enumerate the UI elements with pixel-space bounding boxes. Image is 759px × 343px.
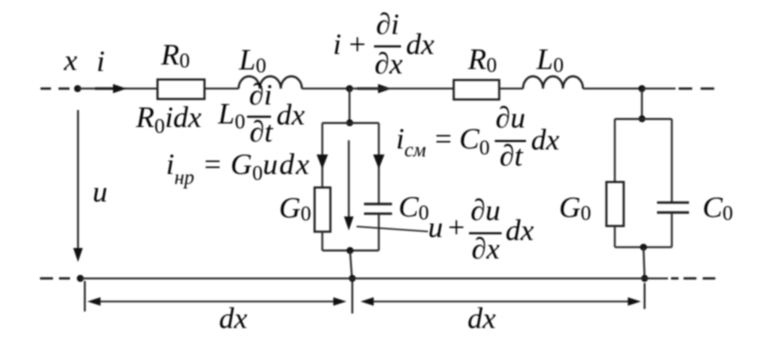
- svg-text:dx: dx: [219, 302, 248, 335]
- wire: right shunt right branch lower: [671, 213, 673, 248]
- wire: middle shunt top horizontal: [322, 122, 379, 124]
- node: right shunt top: [639, 115, 646, 122]
- capacitor C0 (middle shunt): [364, 204, 392, 214]
- capacitor C0 (right shunt): [657, 203, 689, 213]
- arrow: current i+di/dx dx direction: [357, 84, 392, 93]
- value label i_cm = C0 du/dt dx: [396, 101, 560, 172]
- value label L0 di/dt dx: [217, 78, 306, 148]
- svg-text:i: i: [333, 28, 341, 61]
- wire: bottom rail left dashed lead-in: [40, 277, 70, 279]
- svg-text:i: i: [97, 45, 105, 78]
- svg-text:dx: dx: [531, 124, 560, 157]
- node: right shunt bottom: [640, 244, 647, 251]
- dimension tick (middle): [351, 281, 353, 314]
- svg-text:∂t: ∂t: [250, 115, 274, 148]
- resistor R0 (section 2): [454, 80, 500, 100]
- leader line from middle voltage arrow to its label: [357, 227, 429, 232]
- conductance G0 (right shunt): [606, 182, 623, 226]
- value label i + di/dx dx (top middle): [333, 8, 435, 81]
- svg-text:dx: dx: [277, 99, 306, 132]
- svg-text:∂u: ∂u: [471, 194, 501, 227]
- wire: right shunt bottom horizontal: [615, 246, 672, 248]
- svg-text:∂t: ∂t: [500, 140, 524, 173]
- wire: middle shunt left branch lower: [321, 232, 323, 251]
- node: bottom rail middle junction: [349, 275, 356, 282]
- wire: top rail L0 to right node: [583, 88, 642, 90]
- dimension tick (right): [644, 283, 646, 309]
- wire: top rail right solid stub: [642, 88, 676, 90]
- arrow: voltage u+du/dx dx (middle, pointing down): [344, 140, 354, 230]
- wire: middle shunt drop to bottom rail: [350, 251, 352, 279]
- wire + arrow: middle shunt left branch upper (current into G0): [317, 123, 328, 188]
- dimension tick (left): [84, 281, 86, 312]
- resistor R0 (section 1): [158, 80, 205, 100]
- node: top middle junction: [346, 85, 353, 92]
- node: top-left terminal (x): [74, 85, 81, 92]
- wire: right shunt left branch upper: [614, 119, 616, 182]
- wire: right shunt drop to bottom rail: [644, 247, 645, 278]
- arrow: current i direction: [95, 84, 127, 93]
- wire: top rail left dashed lead-in: [41, 87, 70, 89]
- wire: middle shunt drop from top rail: [349, 89, 351, 123]
- wire: top rail L0 to middle node: [302, 88, 350, 90]
- wire: middle shunt right branch lower: [378, 214, 380, 251]
- wire: right shunt right branch upper: [671, 119, 673, 203]
- wire: right shunt top horizontal: [615, 118, 672, 120]
- wire: bottom rail right dashed lead-out: [671, 277, 715, 279]
- dimension arrow dx (left span): [87, 297, 346, 305]
- svg-text:u: u: [428, 211, 443, 244]
- wire: top rail R0 to L0 (section 2): [499, 88, 523, 90]
- svg-text:dx: dx: [506, 214, 535, 247]
- node: middle shunt bottom: [347, 247, 354, 254]
- node: middle shunt top: [346, 119, 353, 126]
- svg-text:+: +: [446, 211, 466, 244]
- wire + arrow: middle shunt right branch upper (current into C0): [373, 123, 384, 204]
- wire: right shunt left branch lower: [614, 226, 616, 247]
- dimension arrow dx (right span): [361, 297, 642, 305]
- wire: top rail from node to R0: [78, 88, 158, 90]
- svg-text:∂i: ∂i: [249, 78, 272, 111]
- inductor L0 (section 2): [523, 76, 583, 88]
- svg-text:dx: dx: [406, 28, 435, 61]
- wire: middle shunt bottom horizontal: [322, 250, 379, 252]
- wire: bottom rail solid: [80, 277, 668, 279]
- node: bottom-left terminal: [77, 275, 84, 282]
- svg-text:+: +: [347, 28, 367, 61]
- node: top right junction: [638, 85, 645, 92]
- svg-text:R0idx: R0idx: [135, 101, 202, 138]
- svg-text:∂u: ∂u: [496, 101, 526, 134]
- svg-text:∂i: ∂i: [376, 8, 399, 41]
- svg-text:dx: dx: [468, 302, 497, 335]
- node: bottom rail right junction: [641, 275, 648, 282]
- arrow: voltage u (left, pointing down): [73, 110, 83, 262]
- svg-text:∂x: ∂x: [472, 233, 501, 266]
- value label u + du/dx dx: [428, 194, 535, 266]
- wire: top rail right dashed lead-out: [679, 87, 715, 89]
- svg-text:∂x: ∂x: [375, 48, 404, 81]
- wire: right shunt drop from top rail: [641, 89, 643, 119]
- inductor L0 (section 1): [239, 76, 302, 88]
- wire: top rail R0 to L0 (section 1): [205, 88, 239, 90]
- conductance G0 (middle shunt): [315, 188, 331, 232]
- wire: top rail middle node to R0 (section 2): [350, 88, 454, 90]
- svg-text:x: x: [63, 44, 78, 77]
- svg-text:u: u: [93, 176, 108, 209]
